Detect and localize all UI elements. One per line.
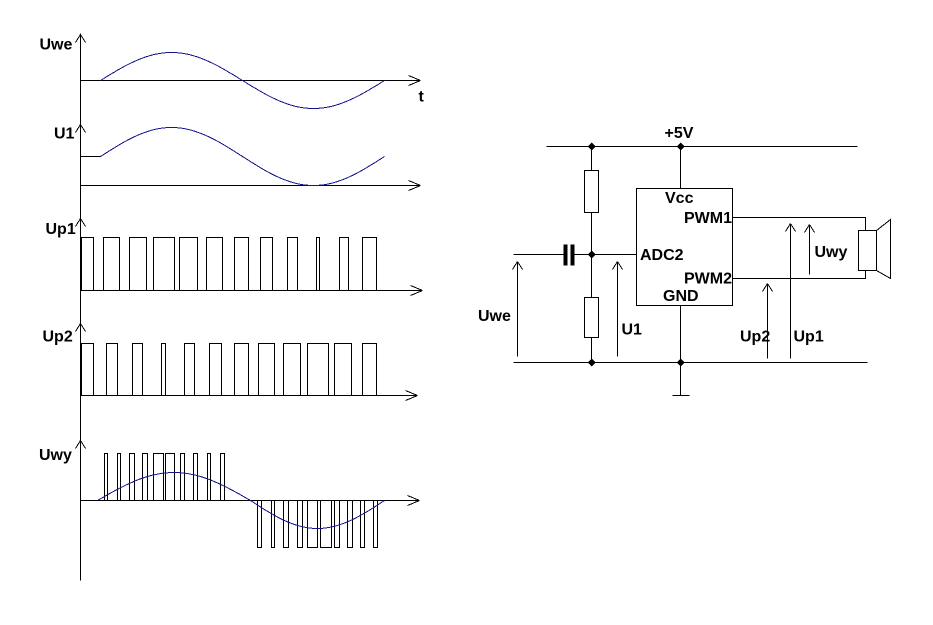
waveform Uwy: vertical axis arrowhead bbox=[76, 441, 86, 449]
wire: GND pin to ground symbol bbox=[680, 306, 682, 396]
resistor R2 (lower divider) bbox=[585, 298, 599, 338]
ground bottom rail wire bbox=[514, 362, 868, 364]
svg-text:Up1: Up1 bbox=[794, 329, 824, 346]
waveform Uwy: positive PWM bursts bbox=[105, 454, 225, 501]
waveform U1: time axis bbox=[81, 185, 420, 187]
waveform Uwy: filtered sine curve bbox=[98, 473, 385, 529]
wire: PWM1 to speaker bbox=[733, 218, 866, 231]
waveform Uwe: time axis arrowhead bbox=[409, 76, 421, 86]
waveform Up2: vertical axis arrowhead bbox=[76, 324, 86, 332]
waveform Up1: time axis bbox=[81, 290, 423, 292]
svg-text:Uwe: Uwe bbox=[478, 308, 511, 325]
waveform Up1: PWM pulse train bbox=[82, 238, 377, 291]
svg-text:Uwy: Uwy bbox=[815, 244, 848, 261]
waveform Up2: PWM pulse train bbox=[82, 344, 377, 396]
microcontroller U1 box bbox=[637, 189, 733, 306]
ground symbol bar bbox=[673, 395, 690, 397]
svg-text:+5V: +5V bbox=[665, 125, 694, 142]
speaker LS1 body bbox=[859, 231, 877, 271]
svg-text:GND: GND bbox=[663, 288, 699, 305]
+5V top rail wire bbox=[547, 146, 858, 148]
junction dot: R2 on ground rail bbox=[588, 359, 596, 367]
wire: R1 to ADC node bbox=[591, 213, 593, 255]
waveform Up2: time axis arrowhead bbox=[406, 391, 418, 401]
waveform U1: offset sine curve bbox=[101, 128, 385, 186]
waveform Up1: time axis arrowhead bbox=[411, 286, 423, 296]
measurement arrow Up2 bbox=[767, 284, 769, 359]
wire: +5V rail to Vcc pin bbox=[680, 147, 682, 189]
wire: rail to R1 bbox=[591, 147, 593, 171]
wire: capacitor to ADC node bbox=[575, 254, 637, 256]
shared vertical axis line bbox=[80, 34, 82, 581]
speaker LS1 cone bbox=[877, 220, 891, 279]
svg-text:Uwy: Uwy bbox=[39, 447, 72, 464]
svg-text:U1: U1 bbox=[54, 126, 75, 143]
svg-text:Vcc: Vcc bbox=[665, 190, 694, 207]
waveform Uwy: time axis bbox=[81, 500, 419, 502]
svg-text:ADC2: ADC2 bbox=[640, 247, 684, 264]
junction dot: ADC node bbox=[588, 251, 596, 259]
svg-text:t: t bbox=[419, 89, 425, 106]
svg-text:Up1: Up1 bbox=[46, 221, 76, 238]
waveform Uwe: vertical axis arrowhead bbox=[76, 35, 86, 43]
junction dot: Vcc tap on +5V rail bbox=[677, 143, 685, 151]
svg-text:Up2: Up2 bbox=[43, 329, 73, 346]
measurement arrow U1 bbox=[617, 262, 619, 357]
waveform Uwy: time axis arrowhead bbox=[408, 496, 420, 506]
svg-text:Uwe: Uwe bbox=[40, 37, 73, 54]
coupling capacitor C1 plate left bbox=[564, 245, 568, 266]
measurement arrow Uwe bbox=[517, 262, 519, 357]
waveform Uwe: sine curve bbox=[101, 53, 385, 109]
waveform Up2: time axis bbox=[81, 395, 417, 397]
resistor R1 (upper divider) bbox=[585, 171, 599, 213]
svg-text:Up2: Up2 bbox=[740, 329, 770, 346]
coupling capacitor C1 plate right bbox=[571, 245, 575, 266]
waveform Uwe: time axis bbox=[81, 80, 421, 82]
waveform U1: dc start segment bbox=[81, 156, 101, 158]
wire: PWM2 to speaker bbox=[733, 271, 866, 279]
waveform U1: vertical axis arrowhead bbox=[76, 125, 86, 133]
wire: ADC node to R2 bbox=[591, 255, 593, 298]
svg-text:PWM1: PWM1 bbox=[684, 210, 732, 227]
junction dot: GND tap on ground rail bbox=[677, 359, 685, 367]
svg-text:PWM2: PWM2 bbox=[684, 271, 732, 288]
svg-text:U1: U1 bbox=[622, 322, 643, 339]
measurement arrow Up1 bbox=[790, 224, 792, 359]
waveform Up1: vertical axis arrowhead bbox=[76, 219, 86, 227]
waveform U1: time axis arrowhead bbox=[409, 181, 421, 191]
wire: R2 to ground rail bbox=[591, 338, 593, 363]
waveform Uwy: negative PWM bursts bbox=[258, 501, 378, 548]
wire: input to coupling capacitor bbox=[514, 254, 564, 256]
measurement arrow Uwy bbox=[809, 225, 811, 275]
junction dot: R1 top on +5V rail bbox=[588, 143, 596, 151]
